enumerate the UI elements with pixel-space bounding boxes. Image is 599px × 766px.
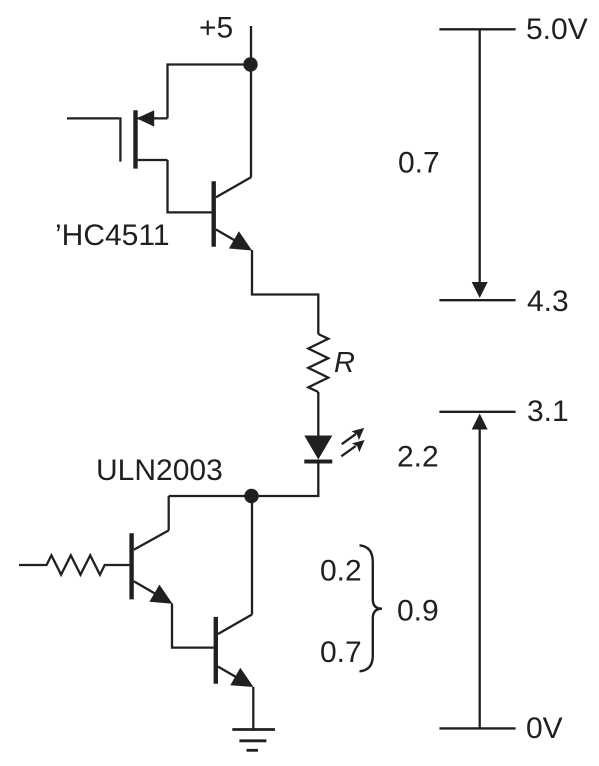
junction dot at ULN collector node <box>244 489 258 503</box>
tick 3.1 level <box>439 411 515 413</box>
wire: Q1 collector riser to node <box>168 496 170 530</box>
wire: +5 node left to MOSFET source riser <box>168 65 251 119</box>
ground symbol <box>232 730 275 751</box>
transistor Q1 NPN (ULN2003 darlington first) <box>132 530 173 603</box>
brace grouping 0.2 and 0.7 <box>360 545 383 671</box>
tick 0V level <box>439 727 515 729</box>
svg-text:2.2: 2.2 <box>397 441 439 474</box>
arrow: 5.0V down to 4.3 <box>472 29 488 298</box>
svg-text:0.7: 0.7 <box>320 636 362 669</box>
svg-text:0.7: 0.7 <box>398 147 440 180</box>
svg-text:0V: 0V <box>526 712 563 745</box>
junction dot at +5 node <box>243 57 257 71</box>
tick 5.0V level <box>439 28 515 30</box>
wire: gate input lead from logic <box>67 117 119 119</box>
svg-text:5.0V: 5.0V <box>526 13 588 46</box>
LED diode symbol <box>304 436 332 462</box>
transistor P-MOSFET (HC4511 output pull-up) <box>120 110 167 168</box>
wire: NPN emitter down, right, down to resistor R <box>252 250 318 334</box>
wire +5 rail vertical (top stub down to NPN collector corner) <box>250 26 252 178</box>
svg-text:R: R <box>334 347 355 379</box>
svg-text:ULN2003: ULN2003 <box>96 454 223 487</box>
svg-text:+5: +5 <box>199 12 233 45</box>
tick 4.3 level <box>439 299 515 301</box>
svg-text:4.3: 4.3 <box>527 285 569 318</box>
svg-text:’HC4511: ’HC4511 <box>55 219 170 252</box>
transistor NPN (HC4511 output) <box>214 177 252 250</box>
arrow: 0V up to 3.1 <box>472 414 488 729</box>
svg-text:0.2: 0.2 <box>320 555 362 588</box>
LED light emission arrow 2 <box>341 440 364 456</box>
LED light emission arrow 1 <box>342 428 365 444</box>
wire: resistor to LED anode <box>317 392 319 436</box>
svg-text:0.9: 0.9 <box>397 595 439 628</box>
transistor Q2 NPN (ULN2003 darlington second) <box>216 615 254 688</box>
wire: input lead and base resistor (zigzag) into Q1 base <box>19 555 129 574</box>
resistor R (zigzag) <box>308 334 328 392</box>
svg-text:3.1: 3.1 <box>527 395 569 428</box>
wire: Q1 emitter down and right to Q2 base <box>172 604 214 648</box>
wire: Q2 collector riser to node <box>251 496 253 615</box>
wire: LED cathode down and left to ULN collector node <box>169 464 319 497</box>
wire: MOSFET drain down to NPN base <box>168 160 212 212</box>
wire: Q2 emitter to ground <box>252 687 254 730</box>
